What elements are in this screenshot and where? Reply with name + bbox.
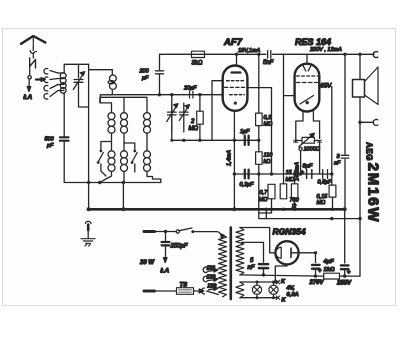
coil L6: [108, 151, 115, 172]
AF7 grid3 dashes: [230, 94, 245, 96]
wire HT bottom row: [240, 274, 360, 278]
label 270V: [309, 280, 325, 286]
RES164 grid2 dashes: [297, 82, 318, 84]
label 0,3A: [287, 292, 299, 298]
svg-text:220: 220: [207, 283, 217, 289]
svg-text:MΩ: MΩ: [189, 126, 199, 132]
node AF7 anode: [235, 53, 238, 56]
svg-text:AF7: AF7: [223, 37, 243, 48]
label 14,5mA: [294, 162, 300, 181]
capacitor C11 250pF: [162, 232, 188, 263]
svg-text:270V: 270V: [309, 280, 325, 286]
wire chassis bus: [87, 207, 347, 211]
terminal speaker C: [373, 52, 378, 58]
wires hook to coil: [50, 71, 58, 97]
RGN354 filament: [276, 247, 281, 258]
svg-text:TS: TS: [180, 283, 188, 289]
antenna plug connector: [30, 47, 36, 58]
svg-text:500: 500: [45, 137, 55, 143]
label 230V,12mA: [309, 47, 342, 53]
coil L8: [144, 151, 151, 172]
capacitor C8 8&#956;F: [301, 164, 313, 179]
svg-text:5nF: 5nF: [263, 60, 274, 66]
svg-text:RGN354: RGN354: [273, 227, 306, 237]
wire rail right down: [359, 219, 361, 277]
wire filter top links: [100, 97, 147, 112]
wire 500pF down: [64, 142, 88, 183]
variable capacitor CV1: [73, 64, 88, 107]
tube V1 AF7: [223, 54, 248, 111]
svg-text:110: 110: [207, 265, 215, 271]
svg-text:1kΩ: 1kΩ: [324, 267, 335, 273]
terminal K upper: [276, 279, 286, 285]
node 200pF: [158, 93, 161, 96]
coil L1 antenna: [58, 73, 66, 94]
svg-text:MΩ: MΩ: [317, 200, 326, 206]
resistor R8 0,15M&#937;: [317, 174, 336, 209]
svg-text:2: 2: [190, 119, 195, 125]
svg-text:+: +: [347, 270, 351, 276]
wire speaker top: [359, 54, 361, 79]
terminal K lower: [276, 296, 286, 304]
wire AF cathode row: [234, 172, 333, 175]
RES164 anode: [300, 96, 314, 105]
svg-text:250pF: 250pF: [170, 244, 188, 250]
coil L2 coupling loop: [89, 70, 117, 103]
arrow to LA: [27, 79, 31, 92]
wire screen rail: [259, 54, 360, 218]
svg-text:pF: pF: [141, 76, 149, 82]
svg-text:AEG: AEG: [365, 142, 374, 161]
node speaker top: [343, 53, 361, 56]
capacitor C13 4&#956;F: [312, 251, 334, 276]
svg-text:0,3A: 0,3A: [287, 292, 299, 298]
antenna: [21, 36, 45, 47]
node screen mid: [257, 139, 260, 142]
svg-text:15: 15: [286, 170, 293, 176]
resistor R4 110k&#937;: [256, 152, 274, 165]
RES164 pinch: [303, 65, 312, 72]
wire heater to filament: [275, 264, 287, 282]
tube V2 RES164: [295, 54, 320, 111]
tap 110: [203, 265, 218, 272]
tube V3 RGN354: [275, 241, 298, 264]
ground connector: [85, 221, 91, 238]
svg-text:65V: 65V: [321, 84, 333, 90]
wire coil bottom: [63, 93, 65, 137]
switch S1 waveband: [97, 142, 112, 177]
svg-text:20μF: 20μF: [183, 86, 197, 92]
ground: [81, 239, 95, 246]
svg-text:0,7: 0,7: [260, 190, 269, 196]
wire filter mid stems: [112, 133, 148, 151]
resistor R6 15M&#937;: [280, 170, 294, 199]
RGN354 anode: [291, 248, 316, 257]
svg-text:3kΩ: 3kΩ: [192, 61, 203, 67]
mains lead N: [144, 290, 177, 293]
label AEG: [365, 142, 374, 161]
tap 130: [203, 275, 218, 282]
transformer secondary heater: [236, 282, 244, 298]
svg-text:4μF: 4μF: [323, 259, 335, 265]
AF7 grid2 dashes: [225, 86, 246, 88]
coil L4: [121, 113, 128, 134]
svg-text:1,4mA: 1,4mA: [227, 150, 233, 166]
wire grid rail RES164: [284, 54, 295, 184]
wire filter to bus: [122, 183, 124, 208]
wire AF7 screen: [247, 88, 271, 174]
wire lamp loop top: [240, 281, 278, 284]
resistor R1 3k&#937;: [192, 51, 205, 66]
label 4V: [286, 286, 296, 292]
svg-text:MΩ: MΩ: [259, 197, 268, 203]
arrow primary top: [221, 234, 225, 239]
wire anode supply top: [160, 53, 375, 55]
svg-text:1000Ω: 1000Ω: [304, 147, 320, 153]
svg-text:0,2: 0,2: [264, 115, 272, 121]
tap 220: [207, 283, 219, 290]
transformer T1 primary: [219, 235, 227, 297]
wire tuning loop: [170, 81, 259, 142]
capacitor C14 4&#956;F: [341, 209, 351, 276]
capacitor C4 20&#956;F: [183, 86, 197, 99]
wire left rail: [88, 64, 90, 208]
svg-text:18V,1mA: 18V,1mA: [238, 48, 261, 54]
label LA mains: [160, 268, 170, 275]
wire filter bottoms: [100, 172, 161, 183]
switch S2 waveband: [124, 143, 137, 172]
wire lamp loop bottom: [240, 296, 278, 299]
svg-text:kΩ: kΩ: [264, 159, 271, 165]
RES164 legs: [296, 112, 320, 175]
terminal antenna socket: [28, 76, 31, 79]
svg-text:0,2μF: 0,2μF: [240, 182, 255, 188]
capacitor C6 1&#956;F: [240, 129, 250, 145]
antenna tap hooks: [44, 68, 48, 99]
resistor R9 1k&#937;: [324, 267, 340, 279]
variable capacitor CV2 tuning: [167, 103, 178, 132]
antenna tap arrow: [36, 78, 45, 82]
lamp E1: [252, 282, 261, 298]
switch S3 mains: [176, 228, 220, 234]
svg-text:20 W: 20 W: [139, 260, 155, 266]
svg-text:ŁA: ŁA: [160, 268, 170, 275]
svg-text:ŁA: ŁA: [23, 94, 33, 101]
capacitor C12 5nF psu: [242, 242, 269, 276]
svg-text:14,5mA: 14,5mA: [294, 162, 300, 181]
svg-text:+: +: [318, 269, 322, 275]
resistor R2 2M&#937;: [189, 93, 204, 140]
resistor R7 700&#937;: [290, 172, 300, 209]
svg-text:0,15: 0,15: [317, 194, 329, 200]
coil L7: [121, 151, 128, 172]
variable capacitor CV3 trimmer: [179, 103, 189, 132]
svg-text:MΩ: MΩ: [286, 177, 295, 183]
svg-text:255V: 255V: [336, 281, 352, 287]
label 65V: [321, 84, 333, 90]
label 2M16W: [365, 163, 382, 224]
node bus dots: [265, 208, 362, 221]
resistor R3 0,2M&#937;: [256, 113, 273, 127]
label 20W: [139, 260, 155, 266]
resistor R5 0,7M&#937;: [259, 184, 276, 213]
label 255V: [336, 281, 352, 287]
svg-text:nF: nF: [248, 265, 255, 271]
transformer core: [230, 228, 233, 300]
svg-text:110: 110: [264, 153, 274, 159]
AF7 grid cap bar: [232, 71, 241, 73]
svg-text:1μF: 1μF: [240, 129, 250, 135]
lamp E2: [269, 282, 278, 298]
label RES164: [295, 37, 331, 47]
wire HT to anode: [240, 228, 276, 253]
label LA antenna: [23, 94, 33, 101]
speaker LS1: [353, 67, 379, 105]
capacitor C9 0,5&#956;F: [318, 170, 333, 186]
label 18V,1mA: [238, 48, 261, 54]
capacitor C10 3nF: [334, 54, 349, 209]
capacitor C5 5nF: [263, 51, 274, 67]
wire grid row: [112, 94, 222, 96]
svg-text:nF: nF: [334, 161, 341, 167]
node screen tap: [257, 53, 260, 56]
svg-text:pF: pF: [46, 143, 54, 149]
coil L3: [108, 113, 115, 134]
potentiometer P1 1000&#937;: [294, 133, 322, 174]
wire RES164 screen: [319, 87, 332, 175]
wire AVC row: [87, 181, 161, 184]
svg-text:2M16W: 2M16W: [365, 163, 382, 224]
AF7 grid dashes: [227, 80, 244, 82]
svg-text:230V , 12mA: 230V , 12mA: [309, 47, 342, 53]
fuse arrow plug: [194, 288, 219, 295]
capacitor C3 200pF: [139, 54, 164, 94]
wire speaker bottom: [358, 97, 361, 219]
capacitor C2 500pF: [45, 137, 69, 150]
label AF7: [223, 37, 243, 48]
wire bus stub: [265, 209, 267, 218]
transformer secondary HT: [236, 228, 244, 275]
antenna switch: [30, 58, 36, 75]
mains lead L: [144, 230, 176, 233]
capacitor C7 0,2&#956;F: [240, 170, 255, 188]
coil L5: [144, 113, 151, 134]
wire coil top loop: [64, 64, 88, 73]
svg-text:130: 130: [207, 275, 216, 281]
svg-text:MΩ: MΩ: [264, 122, 273, 128]
fuse F1 TS: [177, 283, 194, 295]
svg-text:200: 200: [139, 69, 150, 75]
svg-text:4V,: 4V,: [286, 286, 296, 292]
label 1,4mA: [227, 150, 233, 166]
label RGN354: [273, 227, 306, 237]
wire AF7 cathode: [233, 111, 236, 208]
AF7 cathode dot: [234, 102, 237, 105]
svg-text:RES 164: RES 164: [295, 37, 331, 47]
RES164 grid dashes: [297, 75, 318, 77]
svg-text:8μF: 8μF: [303, 164, 313, 170]
terminal speaker Y: [360, 119, 378, 125]
